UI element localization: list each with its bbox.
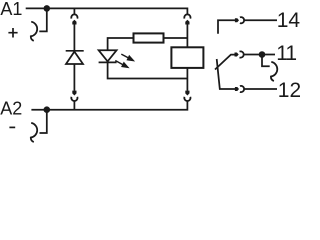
svg-text:14: 14 [277, 9, 300, 32]
svg-text:A1: A1 [0, 0, 22, 19]
svg-text:A2: A2 [0, 99, 22, 119]
svg-text:11: 11 [276, 42, 296, 65]
svg-text:12: 12 [278, 79, 300, 102]
